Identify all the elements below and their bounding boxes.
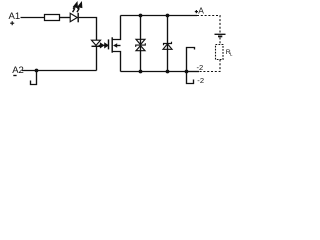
junction node bottom rail / zener bbox=[166, 70, 170, 74]
bottom output rail bbox=[121, 71, 187, 73]
MOSFET Q1 drain stub bbox=[112, 16, 120, 40]
LED D1 emission arrows bbox=[73, 3, 82, 12]
minus sign under A2 bbox=[13, 75, 16, 77]
wire optocoupler cathode down to A2 rail bbox=[96, 46, 98, 70]
junction node top rail / zener bbox=[166, 14, 170, 18]
dashed wire battery to load bbox=[219, 38, 221, 45]
optocoupler LED D2 (pointing down) bbox=[92, 40, 101, 46]
wire resistor to LED bbox=[60, 17, 71, 19]
optocoupler light arrows to gate bbox=[99, 43, 108, 47]
TVS suppressor diode D3 bbox=[136, 39, 146, 50]
MOSFET Q1 gate bar bbox=[108, 39, 110, 49]
LED D1 status indicator bbox=[70, 13, 78, 22]
+A terminal label plus sign bbox=[195, 10, 198, 13]
zener diode D4 bbox=[163, 42, 172, 50]
top output rail bbox=[121, 15, 198, 17]
TVS diode branch wire bbox=[140, 16, 142, 72]
wire LED to corner, down to optocoupler bbox=[79, 18, 97, 41]
MOSFET Q1 channel bar bbox=[111, 37, 113, 52]
resistor R1 (input series resistor) bbox=[45, 15, 60, 21]
junction node bottom rail / -2 terminals bbox=[185, 70, 189, 74]
junction node A2 bbox=[35, 69, 39, 73]
svg-text:L: L bbox=[230, 52, 233, 58]
dashed external wire from +A bbox=[197, 16, 220, 34]
external battery long plate bbox=[215, 33, 226, 35]
MOSFET Q1 source stub bbox=[112, 52, 120, 72]
load resistor RL (dashed, external) bbox=[216, 45, 224, 60]
svg-text:-2: -2 bbox=[197, 76, 204, 85]
zener diode branch wire bbox=[167, 16, 169, 72]
dashed wire load to -2 bbox=[199, 60, 221, 72]
junction node top rail / TVS bbox=[139, 14, 143, 18]
MOSFET Q1 body arrow bbox=[113, 43, 121, 48]
-2 terminal upper stub bbox=[187, 48, 195, 72]
junction node bottom rail / TVS bbox=[139, 70, 143, 74]
A2 bridge terminal hook bbox=[31, 71, 37, 85]
plus sign under A1 bbox=[10, 21, 14, 25]
solid wire -2 node to dashed bbox=[187, 71, 200, 73]
svg-text:A: A bbox=[198, 6, 204, 16]
svg-text:A1: A1 bbox=[9, 11, 21, 22]
wire A2 rail bbox=[22, 70, 97, 72]
wire A1 to resistor bbox=[21, 17, 45, 19]
external battery short plate bbox=[218, 35, 222, 37]
-2 bridge terminal hook bbox=[187, 72, 194, 84]
